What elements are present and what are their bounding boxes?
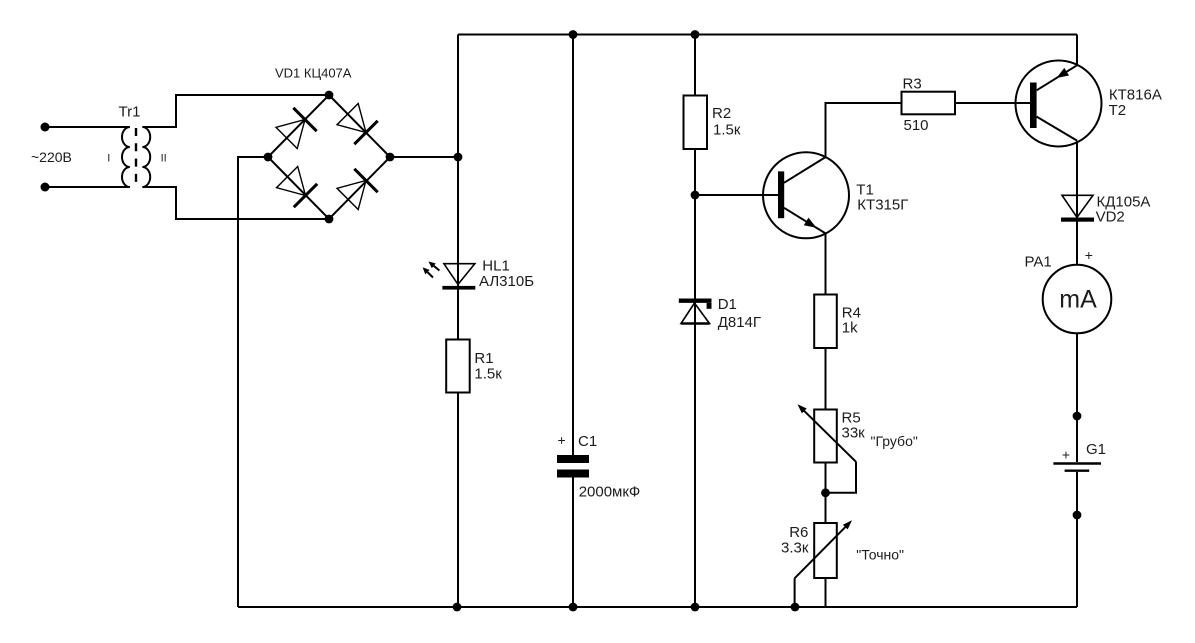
resistor R1 — [446, 340, 470, 393]
bridge diode VD1.4 — [337, 169, 378, 210]
svg-text:КТ315Г: КТ315Г — [857, 197, 908, 214]
svg-text:I: I — [107, 153, 110, 165]
transformer Tr1 secondary winding II — [142, 127, 150, 187]
wire C1 branch upper — [572, 35, 574, 457]
wire lower clamp to minus rail — [1076, 515, 1078, 607]
wire input bottom to primary — [45, 186, 130, 188]
R5 wiper arrow — [798, 404, 857, 462]
svg-text:"Грубо": "Грубо" — [871, 433, 918, 449]
svg-text:1k: 1k — [842, 320, 858, 337]
wire R5 to R6 — [825, 463, 827, 524]
wire base junction to T1 — [695, 194, 778, 196]
wire G1 to clamp node lower — [1076, 472, 1078, 515]
bridge diode VD1.1 — [276, 108, 317, 149]
svg-text:33к: 33к — [842, 425, 866, 442]
bridge VD1 diamond — [268, 95, 390, 219]
resistor R3 — [902, 92, 956, 115]
svg-text:+: + — [1062, 447, 1070, 463]
svg-text:+: + — [1085, 247, 1093, 263]
wire top rail to T2 emitter — [1076, 35, 1078, 65]
wire top rail — [458, 34, 1077, 36]
svg-text:2000мкФ: 2000мкФ — [579, 483, 641, 500]
node rail R1 — [453, 603, 462, 612]
svg-text:"Точно": "Точно" — [856, 547, 904, 563]
wire R5 wiper link — [826, 462, 857, 493]
diode VD2 — [1061, 195, 1094, 221]
svg-text:VD2: VD2 — [1096, 209, 1125, 226]
wire clamp to G1 — [1076, 416, 1078, 462]
svg-text:PA1: PA1 — [1025, 254, 1052, 271]
wire R2 branch upper — [694, 35, 696, 96]
node bridge top vertex — [325, 91, 334, 100]
node bridge bottom vertex — [325, 215, 334, 224]
transformer Tr1 core — [135, 128, 137, 184]
wire bridge right vertex to plus node — [390, 156, 458, 158]
wire T1 emitter to R4 — [825, 233, 827, 294]
svg-text:1.5к: 1.5к — [713, 122, 741, 139]
svg-text:Д814Г: Д814Г — [718, 314, 761, 331]
LED HL1 — [442, 264, 475, 290]
bridge diode VD1.2 — [337, 104, 378, 145]
wire secondary top to bridge top — [142, 95, 329, 127]
wire T1 collector to R3 — [826, 103, 902, 157]
svg-text:C1: C1 — [578, 433, 597, 450]
wire secondary bottom to bridge bottom — [142, 187, 329, 219]
svg-text:II: II — [161, 153, 167, 165]
node bridge right vertex — [386, 153, 395, 162]
svg-text:АЛ310Б: АЛ310Б — [479, 273, 534, 290]
wire plus node vertical — [457, 35, 459, 340]
transistor T2 — [1016, 61, 1102, 147]
wire R6 to rail — [825, 578, 827, 607]
transformer Tr1 primary winding I — [122, 127, 130, 187]
node clamp upper — [1073, 412, 1082, 421]
svg-text:КТ816А: КТ816А — [1109, 87, 1162, 104]
node R5 wiper junction — [821, 488, 830, 497]
svg-text:G1: G1 — [1086, 441, 1106, 458]
resistor R2 — [684, 96, 708, 150]
wire R4 to R5 — [825, 348, 827, 410]
transistor T1 — [763, 152, 849, 238]
LED HL1 emission arrow 2 — [423, 267, 433, 277]
svg-text:VD1 КЦ407А: VD1 КЦ407А — [275, 66, 352, 81]
bridge diode VD1.3 — [277, 167, 318, 208]
wire PA1 to clamp node — [1076, 333, 1078, 416]
wire C1 branch lower — [572, 478, 574, 608]
wire bridge left vertex to minus rail — [238, 157, 268, 607]
resistor R4 — [814, 295, 837, 349]
wire T2 collector to VD2 — [1076, 141, 1078, 217]
svg-text:R1: R1 — [474, 350, 493, 367]
resistor R5 — [814, 410, 837, 463]
node top rail R2 — [691, 30, 700, 39]
node rail R6 wiper — [791, 603, 800, 612]
LED HL1 emission arrow 1 — [429, 262, 440, 271]
svg-text:1.5к: 1.5к — [474, 366, 502, 383]
wire LED to R1 — [457, 290, 459, 340]
svg-text:510: 510 — [904, 117, 929, 134]
zener diode D1 — [679, 301, 712, 324]
svg-text:3.3к: 3.3к — [781, 540, 809, 557]
svg-text:Tr1: Tr1 — [119, 103, 141, 120]
capacitor C1 — [557, 455, 589, 478]
wire bottom rail — [238, 606, 1077, 608]
node base junction — [691, 191, 700, 200]
svg-text:T2: T2 — [1109, 102, 1127, 119]
wire R1 to minus rail — [457, 393, 459, 608]
node rail D1 — [691, 603, 700, 612]
node plus junction — [454, 153, 463, 162]
wire R3 to T2 base — [955, 102, 1030, 104]
node bridge left vertex — [264, 153, 273, 162]
node top rail C1 — [569, 30, 578, 39]
terminal dot upper input — [41, 123, 50, 132]
wire VD2 to PA1 — [1076, 221, 1078, 265]
svg-text:~220В: ~220В — [31, 149, 72, 165]
meter PA1 — [1043, 265, 1112, 334]
svg-text:R2: R2 — [712, 105, 731, 122]
svg-text:R6: R6 — [789, 524, 808, 541]
svg-text:D1: D1 — [718, 296, 737, 313]
wire input top to primary — [45, 126, 130, 128]
node clamp lower — [1073, 511, 1082, 520]
node rail C1 — [569, 603, 578, 612]
terminal dot lower input — [41, 183, 50, 192]
resistor R6 — [814, 523, 837, 578]
svg-text:mA: mA — [1059, 286, 1097, 314]
wire R2 to D1 to minus rail — [694, 149, 696, 607]
svg-text:R3: R3 — [903, 76, 922, 93]
R6 wiper arrow — [795, 520, 852, 578]
wire R6 wiper to rail — [794, 578, 796, 607]
svg-text:+: + — [558, 432, 566, 448]
battery G1 — [1053, 464, 1101, 471]
